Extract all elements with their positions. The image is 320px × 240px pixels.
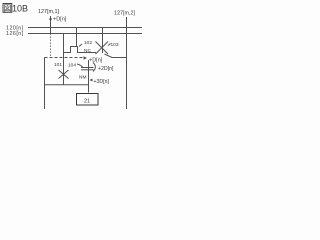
svg-text:127[m,2]: 127[m,2] bbox=[114, 11, 135, 17]
svg-text:104: 104 bbox=[68, 63, 76, 69]
svg-text:+D[n]: +D[n] bbox=[53, 17, 67, 23]
svg-text:10B: 10B bbox=[12, 3, 28, 13]
svg-text:101: 101 bbox=[54, 62, 62, 68]
svg-text:NC: NC bbox=[84, 48, 91, 54]
svg-text:+2D[n]: +2D[n] bbox=[98, 66, 114, 72]
svg-text:103: 103 bbox=[111, 42, 119, 48]
svg-text:126[n]: 126[n] bbox=[6, 31, 24, 37]
svg-text:+3D[n]: +3D[n] bbox=[94, 79, 110, 85]
svg-text:図: 図 bbox=[3, 4, 11, 13]
svg-text:127[m,1]: 127[m,1] bbox=[38, 9, 59, 15]
svg-text:NM: NM bbox=[79, 74, 86, 80]
svg-text:+D[n]: +D[n] bbox=[89, 58, 103, 64]
svg-text:102: 102 bbox=[84, 40, 92, 46]
svg-text:21: 21 bbox=[84, 98, 90, 104]
